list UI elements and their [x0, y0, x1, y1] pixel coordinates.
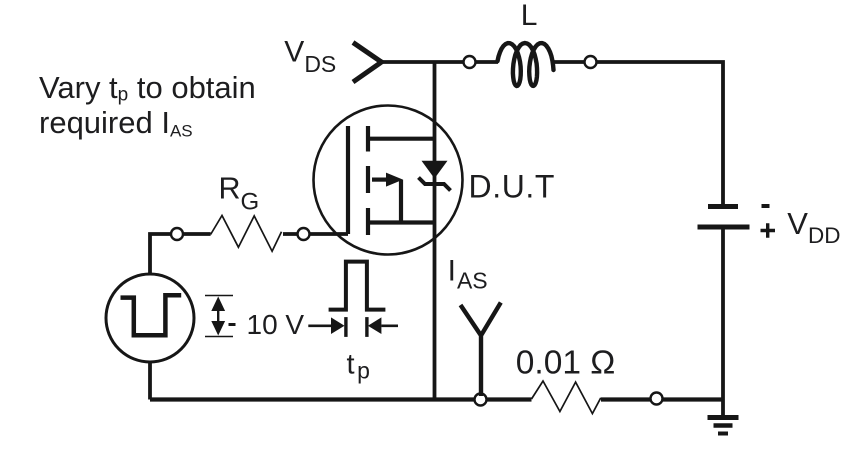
svg-text:10 V: 10 V: [247, 309, 305, 340]
svg-text:0.01 Ω: 0.01 Ω: [516, 345, 616, 382]
svg-text:required IAS: required IAS: [39, 105, 193, 141]
svg-text:L: L: [521, 0, 538, 32]
svg-text:D.U.T: D.U.T: [469, 169, 556, 205]
svg-text:Vary tp to obtain: Vary tp to obtain: [39, 70, 256, 106]
